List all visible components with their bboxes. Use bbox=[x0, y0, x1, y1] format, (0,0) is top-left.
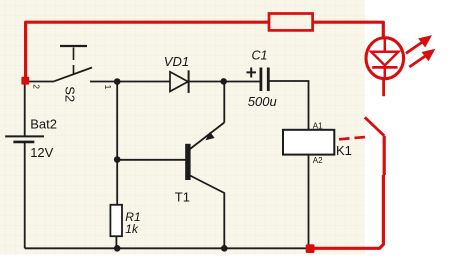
resistor (red, top) bbox=[269, 14, 313, 31]
svg-text:C1: C1 bbox=[252, 49, 268, 63]
wire red left riser and top rail bbox=[26, 22, 269, 78]
transistor T1 emitter bbox=[190, 84, 224, 149]
switch S2 blade bbox=[54, 68, 92, 82]
svg-text:K1: K1 bbox=[336, 143, 352, 158]
wire bottom rail bbox=[25, 247, 310, 249]
wire relay to bottom bbox=[308, 155, 310, 249]
resistor R1 body bbox=[110, 205, 122, 236]
wire node to R1 bbox=[116, 82, 118, 206]
node red left (junction) bbox=[21, 77, 29, 85]
wire battery top bbox=[24, 84, 26, 136]
svg-text:1k: 1k bbox=[125, 222, 139, 236]
wire red right side and bottom bbox=[310, 136, 384, 249]
svg-text:12V: 12V bbox=[30, 145, 53, 160]
node red bottom (junction) bbox=[306, 244, 315, 253]
capacitor C1 plates bbox=[259, 68, 262, 92]
relay contact blade bbox=[365, 117, 384, 136]
relay K1 coil box bbox=[283, 130, 334, 155]
battery Bat2 plates bbox=[5, 135, 44, 137]
switch S2 actuator bbox=[60, 45, 87, 47]
wire C1 to relay bbox=[268, 81, 308, 130]
grid area bbox=[0, 0, 365, 255]
svg-text:S2: S2 bbox=[62, 86, 77, 102]
wire R1 bottom bbox=[115, 236, 117, 248]
wire battery bottom bbox=[24, 143, 26, 249]
node bottom collector junction bbox=[221, 245, 228, 252]
svg-text:1: 1 bbox=[103, 85, 113, 90]
svg-text:A2: A2 bbox=[313, 156, 323, 165]
node VD1-C1-emitter junction bbox=[220, 78, 227, 85]
svg-text:2: 2 bbox=[31, 84, 41, 89]
svg-text:Bat2: Bat2 bbox=[30, 116, 57, 131]
node base junction bbox=[114, 156, 121, 163]
svg-text:VD1: VD1 bbox=[164, 54, 189, 69]
transistor T1 emitter arrow bbox=[206, 132, 215, 141]
wire LED to contact bbox=[382, 79, 385, 96]
svg-text:500u: 500u bbox=[248, 94, 277, 109]
node bottom R1 junction bbox=[114, 245, 121, 252]
wire S2 left bbox=[29, 81, 55, 83]
svg-text:T1: T1 bbox=[175, 190, 190, 205]
wire top rail right segment bbox=[313, 22, 384, 38]
diode VD1 bbox=[170, 72, 188, 92]
svg-text:A1: A1 bbox=[313, 121, 323, 130]
transistor T1 base bar bbox=[185, 144, 190, 180]
wire diode to C1 bbox=[189, 81, 260, 83]
transistor T1 collector bbox=[190, 176, 224, 249]
relay link dashed bbox=[339, 137, 370, 140]
wire S2 to diode bbox=[90, 81, 170, 83]
capacitor plus sign bbox=[247, 68, 257, 78]
LED D1 bbox=[366, 38, 404, 79]
LED arrows bbox=[406, 37, 433, 67]
wire base bbox=[117, 159, 185, 161]
node S2-VD1 junction bbox=[114, 78, 121, 85]
